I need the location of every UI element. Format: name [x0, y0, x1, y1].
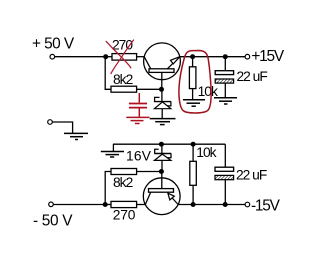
wire Q1 emitter to +15V rail — [180, 56, 245, 58]
wire cap to ground — [224, 83, 226, 98]
wire 8k2 bottom to base — [137, 171, 162, 173]
wire R270 to Q1 collector — [137, 56, 145, 58]
wire -50V to junction — [53, 204, 105, 206]
zener diode D2 — [154, 144, 171, 171]
resistor 10k (top) — [189, 67, 196, 89]
wire 8k2 to base node — [137, 88, 162, 90]
capacitor 22uF (bottom) positive plate — [215, 167, 234, 171]
wire ground rail to cap 22uF bottom — [224, 144, 226, 167]
node base Q1 — [159, 87, 164, 92]
terminal +50V — [50, 54, 55, 59]
wire rail to cap 22uF — [224, 57, 226, 71]
svg-text:8k2: 8k2 — [113, 175, 133, 190]
svg-text:10k: 10k — [198, 84, 218, 99]
ground below 22uF — [214, 98, 237, 104]
resistor 8k2 (bottom) — [111, 169, 137, 175]
svg-text:16V: 16V — [126, 149, 152, 164]
transistor Q1 (NPN) — [144, 43, 181, 89]
svg-text:8k2: 8k2 — [113, 72, 133, 87]
ground symbol on rail — [101, 144, 124, 157]
wire junction to 270 bottom — [105, 204, 111, 206]
svg-text:270: 270 — [113, 208, 136, 223]
svg-text:22 uF: 22 uF — [237, 69, 268, 84]
svg-text:22 uF: 22 uF — [236, 168, 267, 183]
ground input — [64, 133, 88, 139]
transistor Q2 (PNP) — [143, 172, 180, 215]
red capacitor annotation below 8k2 — [126, 93, 149, 124]
red X over 270 (annotation) — [106, 40, 134, 74]
wire rail to 10k bottom — [192, 144, 194, 161]
node junction A (top input) — [103, 54, 108, 59]
svg-text:-15V: -15V — [251, 198, 281, 215]
node zener D2 top — [159, 142, 164, 147]
terminal -50V — [49, 202, 54, 207]
ground below D1 — [150, 119, 176, 125]
resistor 8k2 (top) — [111, 86, 137, 92]
wire junction to R270 — [106, 56, 112, 58]
wire 10k bottom to rail — [192, 185, 194, 204]
ground below 10k — [183, 100, 205, 106]
svg-text:10k: 10k — [196, 145, 216, 160]
capacitor 22uF (top) negative plate hatched — [215, 79, 233, 83]
node 10k bottom top — [191, 142, 196, 147]
terminal -15V — [245, 202, 250, 207]
wire junction down to 8k2 — [105, 57, 111, 90]
terminal +15V — [245, 54, 250, 59]
node cap bottom rail — [223, 202, 228, 207]
svg-text:+15V: +15V — [251, 48, 285, 65]
zener diode D1 — [154, 97, 171, 118]
resistor 270 (top) — [112, 54, 137, 61]
wire Q2 emitter to -15V rail — [178, 204, 245, 206]
wire 10k to ground — [192, 89, 194, 100]
wire cap bottom to -15V rail — [224, 180, 226, 205]
terminal 0V input — [48, 120, 53, 125]
capacitor 22uF (top) positive plate — [215, 71, 233, 75]
svg-text:+ 50 V: + 50 V — [32, 36, 75, 53]
resistor 270 (bottom) — [111, 201, 137, 207]
ground rail (bottom) — [113, 143, 225, 145]
wire base node to zener D1 — [161, 89, 163, 101]
capacitor 22uF (bottom) negative plate hatched — [215, 175, 234, 179]
svg-text:- 50 V: - 50 V — [33, 212, 73, 229]
wire 8k2 left down to junction — [105, 172, 111, 205]
resistor 10k (bottom) — [190, 161, 197, 185]
wire 270 to Q2 collector — [137, 204, 146, 206]
node cap top — [223, 54, 228, 59]
node base Q2 — [159, 169, 164, 174]
node 10k top — [190, 54, 195, 59]
wire +50V to junction — [55, 56, 106, 58]
node junction B (bottom input) — [103, 202, 108, 207]
red ellipse around 10k (annotation) — [179, 51, 211, 114]
node 10k bottom rail — [191, 202, 196, 207]
wire rail to 10k — [192, 57, 194, 67]
wire 0V to ground — [52, 122, 72, 133]
